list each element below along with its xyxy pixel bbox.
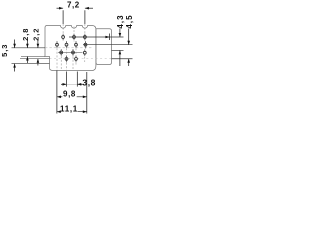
dimension 7,2 top [57, 8, 94, 24]
pin row3 p1 [60, 49, 63, 56]
pin row2 p1 [56, 41, 59, 48]
column centerline pin col x=76 [75, 41, 77, 66]
pin row4 p1 [65, 56, 68, 63]
reference line B y=56.5 [21, 56, 45, 58]
dimension 4,5 right [128, 29, 130, 67]
pin row1 p1 [62, 34, 65, 41]
right stub line y=50.4 [112, 49, 124, 51]
pin row1 p3 [84, 34, 87, 41]
pin row2 p3 [75, 41, 78, 48]
dimension 5,3 left [14, 40, 16, 72]
dimension 9,8 bottom [57, 71, 87, 114]
svg-text:7,2: 7,2 [67, 1, 80, 10]
body outline right section [96, 29, 112, 65]
svg-text:4,5: 4,5 [125, 14, 134, 28]
row4 centerline y=58.75 [20, 58, 133, 60]
svg-text:4,3: 4,3 [116, 14, 125, 28]
arrow marker on row1 line near divider [105, 36, 109, 38]
column centerline pin col x=84.8 [84, 50, 86, 63]
row3 centerline y=52.5 [58, 52, 83, 54]
body outline left section [45, 26, 96, 71]
pin row3 p3 [83, 49, 86, 56]
column centerline pin col x=63.1 [62, 24, 64, 42]
column centerline pin col x=66.5 [66, 41, 68, 71]
svg-text:11,1: 11,1 [60, 105, 78, 114]
pin row1 p2 [73, 34, 76, 41]
reference line A y=47.8 [12, 47, 93, 49]
column centerline pin col x=84.9 [84, 24, 86, 42]
svg-text:5,3: 5,3 [0, 44, 9, 57]
svg-text:9,8: 9,8 [63, 90, 76, 99]
svg-text:2,8: 2,8 [21, 28, 30, 41]
column centerline pin col x=85.5 [85, 41, 87, 49]
column centerline pin col x=57 [56, 41, 58, 71]
column centerline pin col x=74 [73, 27, 75, 42]
column centerline pin col x=61.2 [60, 49, 62, 70]
dimension 2,8 left [26, 40, 28, 63]
reference line C y=63.6 [12, 63, 50, 65]
tick at x=109.6 [109, 34, 111, 41]
pin row2 p4 [84, 41, 87, 48]
pin row4 p2 [75, 56, 78, 63]
row1 centerline y=37 [69, 36, 124, 38]
row2 centerline y=44.7 [83, 44, 133, 46]
dimension 3,2 left [37, 40, 39, 65]
column centerline pin col x=73 [72, 49, 74, 70]
pin row2 p2 [65, 41, 68, 48]
svg-text:3,8: 3,8 [82, 77, 96, 87]
pin row3 p2 [72, 49, 75, 56]
dimension 3,8 bottom [61, 72, 83, 87]
dimension 4,3 right [119, 29, 121, 67]
svg-text:2,2: 2,2 [32, 28, 41, 41]
dimension 11,1 bottom [57, 111, 87, 113]
